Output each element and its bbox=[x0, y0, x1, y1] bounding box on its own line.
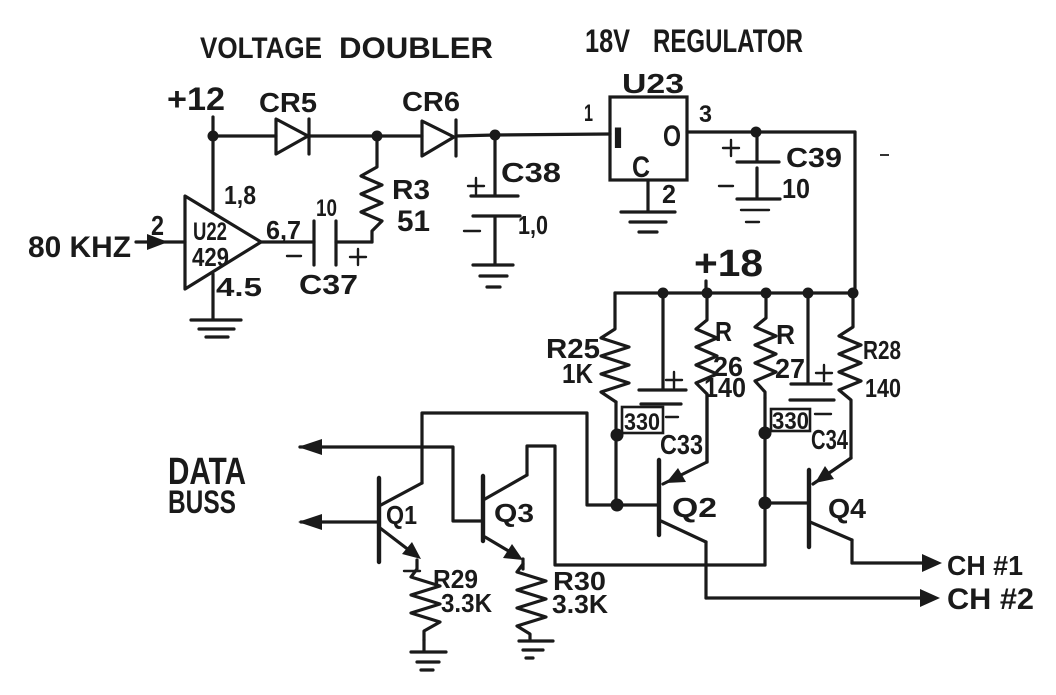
svg-text:C38: C38 bbox=[501, 157, 561, 188]
wire Q4 base bbox=[765, 501, 809, 504]
svg-text:3.3K: 3.3K bbox=[552, 589, 608, 619]
svg-text:C39: C39 bbox=[786, 142, 842, 173]
ground U22 bbox=[191, 320, 241, 337]
wire +18 rail bbox=[615, 291, 853, 294]
svg-text:10: 10 bbox=[782, 173, 810, 204]
svg-text:C33: C33 bbox=[660, 429, 703, 460]
svg-text:CR5: CR5 bbox=[259, 87, 317, 118]
svg-text:VOLTAGE: VOLTAGE bbox=[200, 32, 322, 65]
op-amp U22 bbox=[185, 180, 262, 302]
svg-text:51: 51 bbox=[397, 205, 430, 238]
resistor R29 bbox=[404, 560, 492, 640]
svg-text:+18: +18 bbox=[694, 243, 763, 285]
svg-text:CH #2: CH #2 bbox=[947, 583, 1034, 616]
svg-text:1,8: 1,8 bbox=[224, 180, 256, 210]
svg-text:+12: +12 bbox=[167, 81, 225, 117]
wire Q4 collector to CH1 bbox=[850, 540, 853, 563]
wire data buss arrow 2 (to Q1 base) bbox=[298, 514, 379, 530]
capacitor C37 bbox=[287, 195, 366, 300]
wire R26 bottom to Q2 emitter bbox=[705, 394, 708, 462]
ground C38 bbox=[473, 265, 513, 287]
svg-text:R28: R28 bbox=[863, 335, 901, 365]
wire Q2 collector to CH2 bbox=[704, 542, 707, 598]
node 80 KHZ input bbox=[28, 210, 185, 264]
svg-text:6,7: 6,7 bbox=[266, 215, 301, 245]
node DATA BUSS bbox=[168, 451, 246, 520]
node CH #1 output bbox=[852, 550, 1023, 581]
ground R30 bbox=[519, 641, 553, 658]
resistor R28 bbox=[839, 293, 901, 458]
wire right vertical from U23 output bbox=[853, 132, 856, 293]
svg-text:REGULATOR: REGULATOR bbox=[653, 23, 803, 59]
node +12 bbox=[167, 81, 225, 136]
svg-text:U23: U23 bbox=[622, 68, 684, 99]
svg-text:C37: C37 bbox=[299, 269, 358, 300]
transistor Q3 bbox=[483, 475, 534, 560]
svg-text:BUSS: BUSS bbox=[168, 484, 236, 520]
svg-text:80 KHZ: 80 KHZ bbox=[28, 231, 131, 264]
svg-text:I: I bbox=[612, 122, 624, 155]
junction dots on +18 rail bbox=[658, 288, 669, 299]
wire Q3 emitter to R30 bbox=[521, 559, 524, 569]
junction dot R27/base bbox=[759, 497, 772, 510]
diode CR5 bbox=[259, 87, 317, 154]
svg-text:Q4: Q4 bbox=[828, 493, 866, 524]
resistor R30 bbox=[517, 564, 608, 640]
svg-text:R: R bbox=[776, 319, 795, 350]
svg-text:140: 140 bbox=[704, 372, 746, 403]
diode CR6 bbox=[402, 86, 460, 156]
node CH #2 output bbox=[706, 583, 1034, 616]
junction dot R25/C33 bbox=[611, 429, 624, 442]
ground U23 bbox=[621, 212, 675, 232]
svg-text:DOUBLER: DOUBLER bbox=[339, 32, 493, 65]
svg-text:Q2: Q2 bbox=[672, 492, 717, 523]
wire U23 pin 2 bbox=[648, 179, 676, 211]
node +18 bbox=[694, 243, 763, 293]
wire data buss arrow 1 (to Q3 base) bbox=[298, 439, 483, 521]
resistor R27 bbox=[755, 293, 805, 398]
transistor Q4 bbox=[809, 458, 866, 547]
ground R29 bbox=[411, 640, 446, 670]
svg-text:Q3: Q3 bbox=[494, 498, 534, 528]
svg-text:R: R bbox=[715, 316, 732, 347]
svg-text:3: 3 bbox=[699, 101, 712, 128]
svg-text:4.5: 4.5 bbox=[216, 272, 262, 302]
stray mark bbox=[880, 154, 889, 156]
wire +12 bus to CR5 bbox=[213, 134, 276, 137]
svg-text:330: 330 bbox=[772, 408, 809, 435]
capacitor C39 bbox=[719, 132, 842, 222]
svg-text:10: 10 bbox=[316, 195, 337, 222]
svg-text:1K: 1K bbox=[562, 358, 593, 389]
junction dot at +12 bbox=[208, 131, 219, 142]
wire CR5 to CR6 bbox=[309, 134, 422, 137]
svg-text:140: 140 bbox=[865, 373, 901, 403]
resistor R25 bbox=[546, 293, 629, 402]
svg-text:429: 429 bbox=[192, 242, 229, 272]
capacitor C34 bbox=[765, 293, 848, 455]
resistor R26 bbox=[696, 293, 746, 462]
wire CR6 to U23 pin 1 bbox=[456, 134, 610, 136]
wire U23 pin 3 output bbox=[687, 130, 855, 133]
wire U22 bottom pin bbox=[211, 274, 214, 319]
svg-text:1,0: 1,0 bbox=[518, 210, 548, 240]
wire U22 output bbox=[261, 215, 314, 245]
transistor Q2 bbox=[659, 460, 717, 542]
wire Q3 collector to Q4 base line bbox=[527, 446, 765, 565]
title 18V REGULATOR bbox=[585, 23, 803, 59]
title VOLTAGE DOUBLER bbox=[200, 32, 493, 65]
capacitor C33 bbox=[617, 293, 703, 460]
svg-text:CH #1: CH #1 bbox=[947, 550, 1023, 581]
svg-text:27: 27 bbox=[775, 353, 805, 384]
wire Q1 collector to Q2 base bbox=[422, 413, 659, 505]
svg-text:1: 1 bbox=[584, 100, 593, 127]
svg-text:3.3K: 3.3K bbox=[441, 588, 492, 618]
transistor Q1 bbox=[379, 478, 422, 562]
wire R25 bottom to Q2 base rail bbox=[614, 402, 617, 505]
junction dot R25/base bbox=[611, 499, 624, 512]
junction node C38 bbox=[490, 130, 501, 141]
svg-text:C34: C34 bbox=[811, 424, 848, 455]
svg-text:Q1: Q1 bbox=[386, 500, 417, 530]
svg-text:330: 330 bbox=[624, 409, 660, 436]
capacitor C38 bbox=[464, 135, 561, 264]
svg-text:CR6: CR6 bbox=[402, 86, 460, 117]
svg-text:2: 2 bbox=[662, 179, 676, 209]
wire C37 to R3 bottom bbox=[336, 240, 372, 243]
junction node CR5/R3 bbox=[372, 131, 383, 142]
regulator U23 bbox=[584, 68, 712, 184]
svg-text:R3: R3 bbox=[392, 174, 430, 205]
wire U22 top pin bbox=[211, 136, 214, 210]
svg-text:O: O bbox=[663, 120, 681, 153]
junction dot R27/C34 bbox=[759, 427, 772, 440]
svg-text:18V: 18V bbox=[585, 23, 631, 59]
wire R27 bottom to Q4 area bbox=[763, 398, 766, 565]
resistor R3 bbox=[361, 136, 430, 242]
junction node C39 bbox=[751, 127, 762, 138]
